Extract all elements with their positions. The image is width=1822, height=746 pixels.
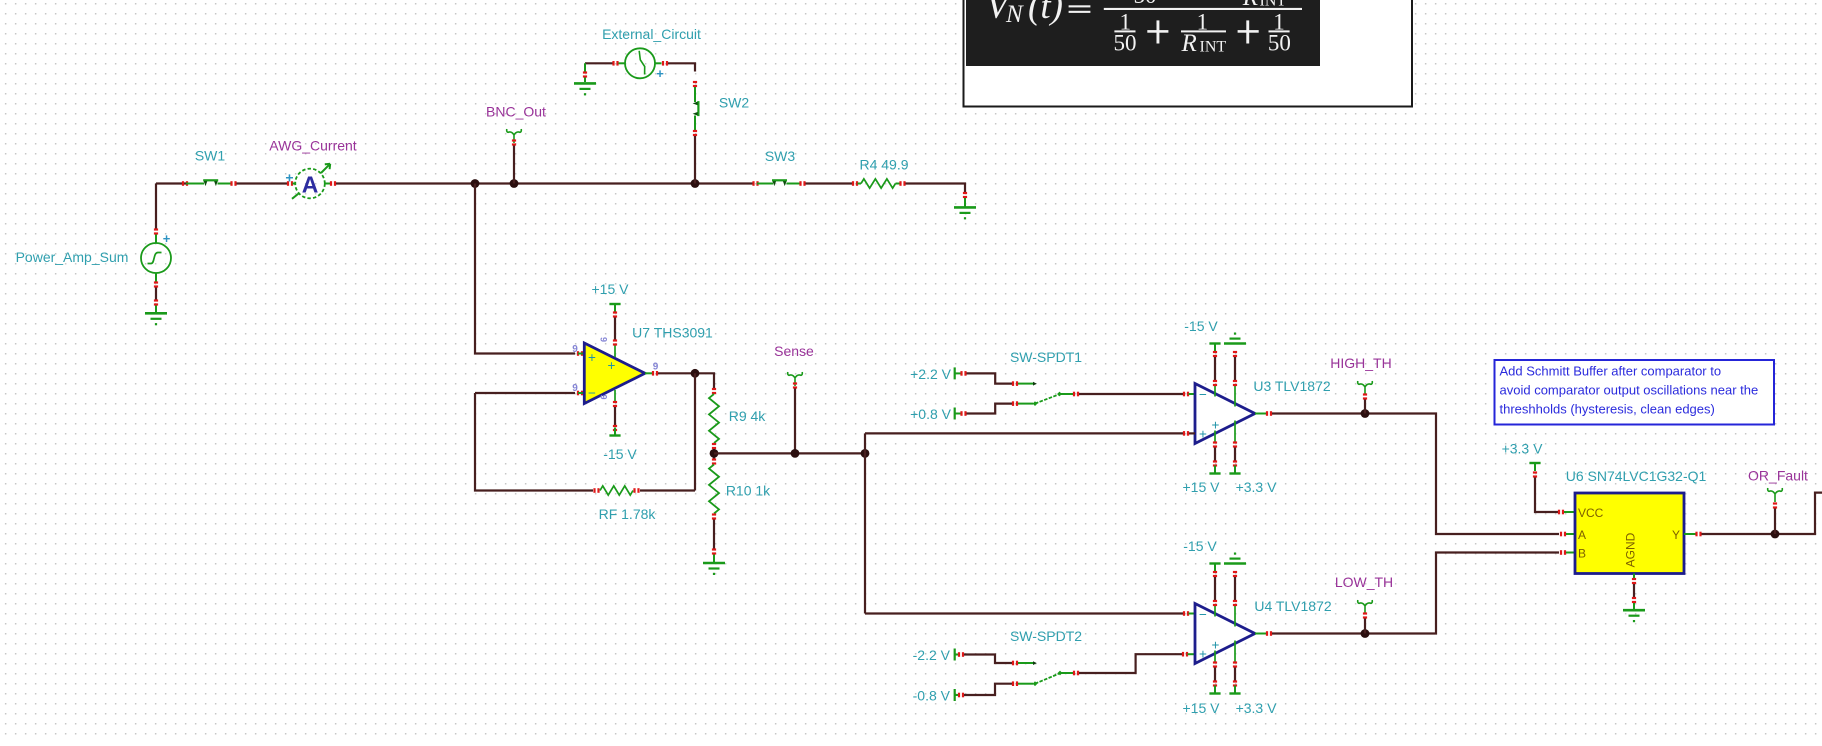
wire bbox=[967, 373, 1013, 383]
pin mark bbox=[652, 371, 658, 376]
pin mark bbox=[1233, 351, 1237, 357]
wire bbox=[155, 184, 157, 229]
pin mark bbox=[512, 139, 516, 145]
pin stub bbox=[1633, 603, 1635, 610]
svg-text:Power_Amp_Sum: Power_Amp_Sum bbox=[16, 249, 129, 265]
ground bbox=[1623, 610, 1645, 622]
wire bbox=[794, 389, 796, 454]
terminal +0.8V bbox=[955, 408, 961, 420]
pin mark bbox=[963, 192, 967, 198]
label OR_Fault bbox=[1748, 468, 1808, 484]
pin mark bbox=[1213, 680, 1217, 686]
wire bbox=[237, 182, 289, 184]
power +3.3V U3 bbox=[1229, 466, 1277, 496]
pin mark bbox=[1233, 460, 1237, 466]
pin mark bbox=[154, 228, 158, 234]
pin stub bbox=[293, 183, 296, 185]
pin stub bbox=[964, 198, 966, 207]
svg-text:SW-SPDT1: SW-SPDT1 bbox=[1010, 349, 1082, 365]
pin mark bbox=[1213, 460, 1217, 466]
pin mark bbox=[799, 181, 805, 186]
label U4 TLV1872 bbox=[1254, 598, 1332, 614]
wire bbox=[1272, 414, 1559, 535]
comparator U3 bbox=[1195, 384, 1255, 444]
pin mark bbox=[182, 181, 188, 186]
junction bbox=[691, 369, 700, 378]
wire bbox=[1215, 577, 1235, 601]
wire bbox=[967, 404, 1013, 414]
resistor R10 1k bbox=[709, 465, 719, 514]
wire bbox=[713, 449, 715, 459]
pin stub bbox=[155, 306, 157, 313]
ground bbox=[954, 207, 976, 219]
label -0.8 V bbox=[913, 688, 951, 704]
junction bbox=[1361, 629, 1370, 638]
power +15V U4 bbox=[1183, 686, 1221, 717]
wire bbox=[1535, 478, 1558, 513]
pin mark bbox=[1213, 380, 1217, 386]
pin mark bbox=[577, 391, 583, 396]
svg-text:-2.2 V: -2.2 V bbox=[913, 647, 951, 663]
pin mark bbox=[1632, 597, 1636, 603]
pin mark bbox=[1363, 393, 1367, 399]
pin mark bbox=[899, 181, 905, 186]
svg-text:6: 6 bbox=[599, 337, 609, 342]
svg-text:50: 50 bbox=[1268, 31, 1291, 56]
resistor RF 1.78k bbox=[600, 486, 633, 495]
label U6 SN74LVC1G32-Q1 bbox=[1566, 468, 1707, 484]
pin stub bbox=[1188, 653, 1196, 655]
label U7 THS3091 bbox=[632, 325, 713, 341]
svg-text:External_Circuit: External_Circuit bbox=[602, 26, 701, 42]
label R9 4k bbox=[729, 408, 767, 424]
pin stub bbox=[1633, 574, 1635, 579]
pin mark bbox=[752, 181, 758, 186]
pin mark bbox=[154, 281, 158, 287]
pin stub bbox=[584, 63, 586, 82]
pin stub bbox=[578, 353, 584, 355]
formula image box bbox=[964, 0, 1413, 107]
wire bbox=[155, 288, 157, 301]
svg-text:+3.3 V: +3.3 V bbox=[1502, 441, 1544, 457]
wire bbox=[694, 136, 696, 184]
pin mark bbox=[1266, 631, 1272, 636]
svg-text:U4 TLV1872: U4 TLV1872 bbox=[1254, 598, 1332, 614]
label RF 1.78k bbox=[599, 506, 657, 522]
svg-text:VCC: VCC bbox=[1578, 506, 1604, 520]
junction bbox=[691, 179, 700, 188]
wire bbox=[1272, 553, 1559, 634]
svg-text:+15 V: +15 V bbox=[592, 281, 630, 297]
pin mark bbox=[154, 299, 158, 305]
terminal +2.2V bbox=[955, 367, 961, 379]
wire bbox=[1364, 619, 1366, 634]
svg-text:+0.8 V: +0.8 V bbox=[910, 406, 952, 422]
wire bbox=[1774, 509, 1776, 535]
label SW1 bbox=[195, 148, 226, 164]
pin number 6 bbox=[599, 394, 609, 399]
label BNC_Out bbox=[486, 104, 546, 120]
junction bbox=[1361, 409, 1370, 418]
switch SW2 bbox=[693, 87, 699, 131]
svg-text:A: A bbox=[1578, 528, 1586, 542]
junction bbox=[471, 179, 480, 188]
power rail symbol bbox=[1224, 553, 1246, 564]
pin mark bbox=[577, 351, 583, 356]
switch SW-SPDT2 pole bbox=[1018, 671, 1073, 687]
ground bbox=[703, 563, 725, 575]
svg-text:(t): (t) bbox=[1028, 0, 1063, 27]
pin mark bbox=[613, 311, 617, 317]
svg-text:HIGH_TH: HIGH_TH bbox=[1330, 355, 1391, 371]
svg-text:SW3: SW3 bbox=[765, 148, 796, 164]
label SW3 bbox=[765, 148, 796, 164]
power -15V U3 bbox=[1184, 318, 1220, 352]
label HIGH_TH bbox=[1330, 355, 1391, 371]
op-amp U7 bbox=[584, 343, 645, 404]
power rail symbol bbox=[1224, 333, 1246, 344]
connector HIGH_TH bbox=[1358, 381, 1373, 395]
pin mark bbox=[330, 181, 336, 186]
ground bbox=[574, 83, 596, 95]
junction bbox=[710, 449, 719, 458]
power -15V U4 bbox=[1183, 538, 1220, 572]
pin mark bbox=[1233, 441, 1237, 447]
pin stub bbox=[1215, 466, 1235, 474]
svg-text:+3.3 V: +3.3 V bbox=[1236, 479, 1278, 495]
pin stub bbox=[1566, 552, 1575, 554]
wire bbox=[865, 432, 1183, 434]
pin stub bbox=[155, 273, 157, 282]
pin mark bbox=[1266, 411, 1272, 416]
pin mark bbox=[960, 371, 966, 376]
pin mark bbox=[1233, 380, 1237, 386]
svg-text:+: + bbox=[1199, 647, 1207, 662]
pin mark bbox=[1213, 661, 1217, 667]
label SW-SPDT2 bbox=[1010, 628, 1082, 644]
svg-text:SW-SPDT2: SW-SPDT2 bbox=[1010, 628, 1082, 644]
label -2.2 V bbox=[913, 647, 951, 663]
source External_Circuit bbox=[625, 48, 664, 81]
svg-text:−: − bbox=[1199, 387, 1207, 402]
wire bbox=[1215, 668, 1235, 682]
pin stub bbox=[858, 183, 862, 185]
IC U6 SN74LVC1G32-Q1 bbox=[1575, 493, 1684, 574]
svg-text:Sense: Sense bbox=[774, 343, 814, 359]
junction bbox=[791, 449, 800, 458]
power +3.3V U6 bbox=[1502, 441, 1544, 472]
pin stub bbox=[655, 62, 662, 64]
label Power_Amp_Sum bbox=[16, 249, 129, 265]
wire bbox=[156, 182, 186, 184]
pin mark bbox=[1632, 578, 1636, 584]
junction bbox=[1771, 530, 1780, 539]
voltage source Power_Amp_Sum bbox=[141, 231, 171, 273]
switch SW-SPDT2 throw A bbox=[1018, 661, 1037, 665]
pin mark bbox=[958, 693, 964, 698]
svg-text:U6 SN74LVC1G32-Q1: U6 SN74LVC1G32-Q1 bbox=[1566, 468, 1707, 484]
wire bbox=[585, 62, 613, 64]
wire bbox=[336, 182, 754, 184]
svg-text:threshholds (hysteresis, clean: threshholds (hysteresis, clean edges) bbox=[1500, 402, 1715, 417]
pin mark bbox=[1012, 661, 1018, 666]
pin stub bbox=[1566, 533, 1575, 535]
svg-text:6: 6 bbox=[599, 394, 609, 399]
pin mark bbox=[712, 443, 716, 449]
pin mark bbox=[712, 388, 716, 394]
wire bbox=[1079, 393, 1183, 395]
svg-text:+: + bbox=[588, 350, 596, 365]
switch SW-SPDT1 pole bbox=[1018, 392, 1073, 406]
svg-text:SW2: SW2 bbox=[719, 95, 750, 111]
pin mark bbox=[1182, 652, 1188, 657]
ammeter AWG_Current bbox=[285, 164, 330, 199]
terminal -0.8V bbox=[955, 689, 959, 701]
label R10 1k bbox=[726, 483, 771, 499]
wire bbox=[1215, 448, 1235, 462]
svg-text:INT: INT bbox=[1200, 39, 1227, 56]
pin mark bbox=[1533, 471, 1537, 477]
pin mark bbox=[1073, 392, 1079, 397]
pin mark bbox=[1363, 612, 1367, 618]
svg-text:9: 9 bbox=[572, 344, 578, 355]
pin mark bbox=[1233, 571, 1237, 577]
pin number 9 bbox=[572, 344, 578, 355]
pin mark bbox=[583, 71, 587, 77]
power +3.3V U4 bbox=[1229, 686, 1277, 717]
svg-text:R: R bbox=[1181, 30, 1197, 57]
wire bbox=[475, 393, 593, 491]
svg-text:A: A bbox=[302, 172, 319, 198]
svg-text:-15 V: -15 V bbox=[603, 446, 637, 462]
power +15V bbox=[592, 281, 630, 312]
pin mark bbox=[1233, 680, 1237, 686]
pin stub bbox=[1215, 686, 1235, 694]
pin mark bbox=[1183, 431, 1189, 436]
wire bbox=[614, 407, 616, 426]
pin stub bbox=[713, 555, 715, 563]
pin mark bbox=[230, 181, 236, 186]
svg-text:avoid comparator output oscill: avoid comparator output oscillations nea… bbox=[1500, 383, 1759, 398]
svg-text:U7 THS3091: U7 THS3091 bbox=[632, 325, 713, 341]
wire bbox=[475, 184, 575, 354]
svg-text:+: + bbox=[1199, 427, 1207, 442]
wire bbox=[964, 655, 1012, 664]
pin mark bbox=[1233, 661, 1237, 667]
pin mark bbox=[1213, 441, 1217, 447]
svg-text:AGND: AGND bbox=[1624, 532, 1638, 567]
pin mark bbox=[852, 181, 858, 186]
pin number 6 bbox=[599, 337, 609, 342]
label SW-SPDT1 bbox=[1010, 349, 1082, 365]
svg-text:+: + bbox=[1212, 638, 1220, 653]
pin mark bbox=[712, 458, 716, 464]
pin mark bbox=[712, 548, 716, 554]
pin number 9 bbox=[653, 362, 659, 373]
power +15V U3 bbox=[1183, 466, 1221, 496]
pin mark bbox=[958, 652, 964, 657]
pin mark bbox=[1695, 532, 1701, 537]
pin stub bbox=[155, 235, 157, 244]
svg-text:LOW_TH: LOW_TH bbox=[1335, 574, 1393, 590]
wire bbox=[640, 373, 695, 490]
wire bbox=[714, 452, 865, 454]
pin mark bbox=[287, 181, 293, 186]
label Sense bbox=[774, 343, 814, 359]
pin mark bbox=[1073, 671, 1079, 676]
svg-text:+: + bbox=[163, 231, 171, 246]
svg-text:BNC_Out: BNC_Out bbox=[486, 104, 546, 120]
pin stub bbox=[1189, 613, 1196, 615]
pin stub bbox=[619, 62, 626, 64]
switch SW3 bbox=[757, 180, 800, 186]
pin mark bbox=[633, 488, 639, 493]
pin mark bbox=[1233, 600, 1237, 606]
pin mark bbox=[1012, 401, 1018, 406]
power -15V bbox=[603, 428, 637, 463]
pin number 9 bbox=[572, 383, 578, 394]
pin mark bbox=[793, 382, 797, 388]
label External_Circuit bbox=[602, 26, 701, 42]
pin mark bbox=[1183, 611, 1189, 616]
wire bbox=[1633, 584, 1635, 598]
wire bbox=[475, 392, 575, 394]
pin mark bbox=[1213, 571, 1217, 577]
pin mark bbox=[1558, 510, 1564, 515]
label LOW_TH bbox=[1335, 574, 1393, 590]
label AWG_Current bbox=[269, 138, 357, 154]
pin stub bbox=[1255, 633, 1266, 635]
svg-text:+: + bbox=[608, 358, 616, 373]
pin mark bbox=[612, 61, 618, 66]
svg-text:9: 9 bbox=[653, 362, 659, 373]
svg-text:-0.8 V: -0.8 V bbox=[913, 688, 951, 704]
wire bbox=[806, 182, 853, 184]
wire bbox=[713, 520, 715, 550]
svg-text:50: 50 bbox=[1114, 31, 1137, 56]
wire bbox=[864, 433, 866, 613]
resistor R9 4k bbox=[709, 394, 719, 443]
svg-text:U3 TLV1872: U3 TLV1872 bbox=[1253, 378, 1331, 394]
connector Sense bbox=[788, 372, 803, 386]
pin mark bbox=[613, 339, 617, 345]
pin mark bbox=[1773, 502, 1777, 508]
svg-text:-15 V: -15 V bbox=[1184, 318, 1218, 334]
svg-text:50: 50 bbox=[1134, 0, 1157, 8]
pin mark bbox=[1213, 600, 1217, 606]
pin stub bbox=[324, 183, 330, 185]
wire bbox=[1189, 432, 1195, 434]
pin stub bbox=[1684, 533, 1696, 535]
label SW2 bbox=[719, 95, 750, 111]
pin mark bbox=[960, 411, 966, 416]
pin mark bbox=[593, 488, 599, 493]
pin mark bbox=[1183, 392, 1189, 397]
svg-text:OR_Fault: OR_Fault bbox=[1748, 468, 1808, 484]
svg-text:SW1: SW1 bbox=[195, 148, 226, 164]
svg-text:RF 1.78k: RF 1.78k bbox=[599, 506, 657, 522]
label +0.8 V bbox=[910, 406, 952, 422]
svg-text:+: + bbox=[656, 66, 664, 81]
connector BNC_Out bbox=[507, 129, 522, 143]
wire bbox=[658, 373, 714, 388]
wire bbox=[1215, 357, 1235, 381]
pin stub bbox=[896, 183, 901, 185]
pin stub bbox=[645, 372, 652, 374]
label U3 TLV1872 bbox=[1253, 378, 1331, 394]
svg-text:9: 9 bbox=[572, 383, 578, 394]
svg-text:+15 V: +15 V bbox=[1183, 479, 1221, 495]
junction bbox=[510, 179, 519, 188]
pin mark bbox=[1213, 351, 1217, 357]
wire bbox=[865, 612, 1183, 614]
pin mark bbox=[1012, 681, 1018, 686]
svg-text:+3.3 V: +3.3 V bbox=[1236, 700, 1278, 716]
connector LOW_TH bbox=[1358, 600, 1373, 614]
pin mark bbox=[693, 130, 697, 136]
connector OR_Fault bbox=[1768, 488, 1783, 502]
wire bbox=[1364, 400, 1366, 414]
svg-text:+: + bbox=[1212, 418, 1220, 433]
wire bbox=[964, 684, 1012, 695]
svg-text:Y: Y bbox=[1672, 528, 1680, 542]
svg-text:−: − bbox=[588, 386, 596, 401]
svg-text:+15 V: +15 V bbox=[1183, 700, 1221, 716]
wire bbox=[1079, 654, 1182, 673]
wire bbox=[906, 184, 966, 193]
comparator U4 bbox=[1195, 604, 1255, 664]
svg-text:+2.2 V: +2.2 V bbox=[910, 366, 952, 382]
label +2.2 V bbox=[910, 366, 952, 382]
pin stub bbox=[578, 392, 584, 394]
pin mark bbox=[693, 81, 697, 87]
pin mark bbox=[1560, 532, 1566, 537]
switch SW1 bbox=[186, 180, 231, 186]
pin stub bbox=[1189, 393, 1196, 395]
pin mark bbox=[1012, 381, 1018, 386]
note box bbox=[1495, 360, 1775, 425]
svg-text:Add Schmitt Buffer after compa: Add Schmitt Buffer after comparator to bbox=[1500, 364, 1722, 379]
svg-text:-15 V: -15 V bbox=[1183, 538, 1217, 554]
svg-text:AWG_Current: AWG_Current bbox=[269, 138, 357, 154]
svg-text:N: N bbox=[1005, 1, 1024, 28]
pin mark bbox=[662, 61, 668, 66]
label R4 49.9 bbox=[859, 157, 908, 173]
pin stub bbox=[1255, 413, 1266, 415]
wire bbox=[668, 63, 695, 71]
svg-text:−: − bbox=[1199, 607, 1207, 622]
ground bbox=[145, 313, 167, 325]
wire bbox=[614, 318, 616, 341]
pin mark bbox=[613, 425, 617, 431]
terminal -2.2V bbox=[955, 649, 959, 661]
switch SW-SPDT1 throw A bbox=[1018, 382, 1037, 386]
svg-text:R10 1k: R10 1k bbox=[726, 483, 771, 499]
svg-text:B: B bbox=[1578, 547, 1586, 561]
wire bbox=[1702, 493, 1822, 534]
pin mark bbox=[613, 401, 617, 407]
resistor R4 49.9 bbox=[861, 179, 896, 188]
svg-text:R4 49.9: R4 49.9 bbox=[859, 157, 908, 173]
wire bbox=[513, 146, 515, 184]
pin mark bbox=[1560, 550, 1566, 555]
pin mark bbox=[712, 513, 716, 519]
svg-text:R9 4k: R9 4k bbox=[729, 408, 767, 424]
junction bbox=[861, 449, 870, 458]
pin stub bbox=[1564, 511, 1575, 513]
svg-text:+: + bbox=[285, 170, 293, 186]
